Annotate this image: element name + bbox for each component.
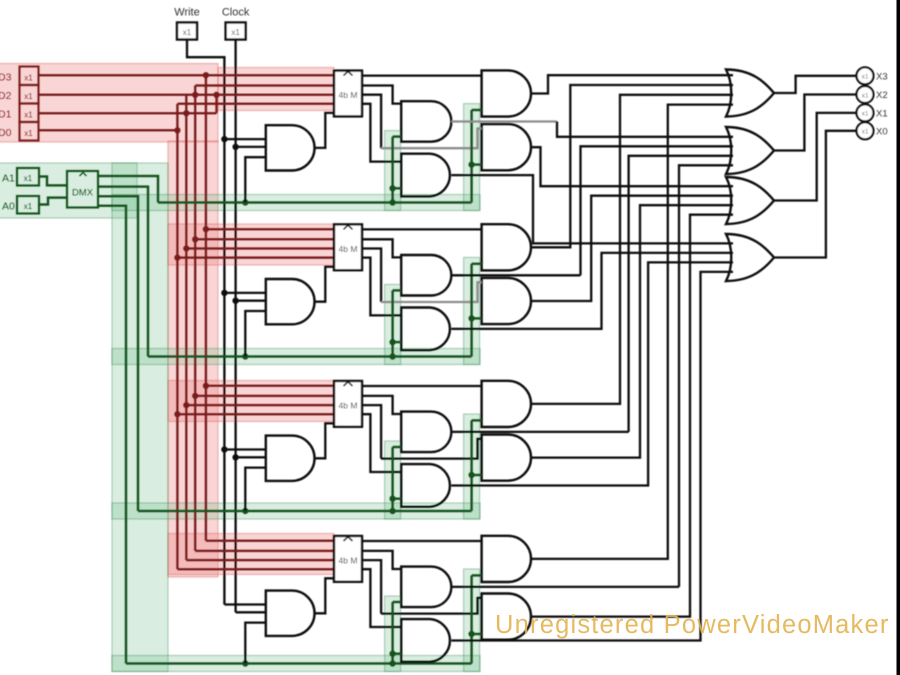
wire U2 output1 to R2a bbox=[362, 228, 482, 230]
wire U2 output4 to M2b bbox=[362, 258, 401, 316]
or-gate OR4 bit0 bbox=[726, 234, 774, 281]
node Write junction row1 bbox=[221, 136, 227, 142]
node D0 junction row3 bbox=[174, 411, 180, 417]
wire D3 horizontal to register row1 bbox=[39, 74, 335, 77]
highlight green band row3 select line bbox=[112, 503, 480, 519]
wire A1 to DMX bbox=[39, 177, 67, 186]
highlight green band row4 select riser x392 bbox=[385, 596, 401, 672]
wire R4b output to OR3 input4 bbox=[531, 215, 733, 617]
node D3 junction row3 bbox=[203, 383, 209, 389]
output pin X3 circle bbox=[857, 67, 874, 84]
input pin Clock x1 box bbox=[226, 23, 246, 40]
highlight green band row4 select riser x472 bbox=[464, 569, 480, 672]
wire row3 stub to M3b input2 bbox=[393, 497, 402, 500]
wire M1a output to OR2 input1 bbox=[451, 120, 557, 122]
node row2 riser x472 stub junction bbox=[468, 315, 474, 321]
and-gate R2a read bit3 bbox=[482, 224, 531, 270]
highlight green band row3 select riser x392 bbox=[385, 441, 401, 519]
highlight green band row1 select riser x472 bbox=[464, 104, 480, 211]
and-gate M2b read bit0 bbox=[401, 308, 450, 351]
wire row4 riser x472 top stub to R4a bbox=[472, 574, 482, 577]
wire Write branch row2 bbox=[224, 292, 265, 294]
wire R4a output to OR1 input4 bbox=[531, 105, 733, 559]
and-gate R4b read bit1 bbox=[482, 594, 531, 640]
node row3 select to write-AND stub bbox=[242, 508, 248, 514]
and-gate R3a read bit3 bbox=[482, 381, 531, 427]
and-gate M3b read bit0 bbox=[401, 464, 450, 507]
register U2 4-bit box bbox=[334, 224, 362, 270]
node D1 junction row3 bbox=[183, 402, 189, 408]
wire M2b output to OR4 input2 bbox=[451, 253, 733, 329]
or-gate OR3 bit1 bbox=[726, 177, 774, 224]
wire row1 stub to R1b input2 bbox=[472, 163, 482, 166]
svg-text:X2: X2 bbox=[876, 90, 888, 101]
wire row2 select line bbox=[148, 355, 472, 358]
wire U4 output3 to R4b bbox=[362, 560, 381, 614]
and-gate M4b read bit0 bbox=[401, 619, 450, 662]
highlight green band row1 select line bbox=[112, 195, 480, 211]
wire OR3 bit1 output to X1 bbox=[774, 113, 857, 201]
svg-text:x1: x1 bbox=[183, 28, 192, 37]
node Write junction row3 bbox=[221, 446, 227, 452]
node D2 branch junction bbox=[192, 92, 198, 98]
wire D0 branch row4 input4 bbox=[177, 568, 334, 571]
wire W4 output to register clock pin bbox=[315, 578, 334, 613]
wire R2a output to OR1 input2 bbox=[531, 85, 733, 247]
wire Write branch row3 bbox=[224, 448, 265, 450]
wire select stub to W1 input3 bbox=[245, 157, 265, 202]
wire U2 output3 to R2b bbox=[362, 249, 381, 303]
node row3 riser x472 stub junction bbox=[468, 472, 474, 478]
svg-text:x1: x1 bbox=[231, 28, 240, 37]
and-gate M4a read bit2 bbox=[401, 567, 451, 608]
input pin A1 x1 box bbox=[17, 168, 39, 186]
wire row1 riser x472 top stub to R1a bbox=[472, 109, 482, 112]
wire D1 horizontal bbox=[39, 112, 217, 115]
or-gate OR1 bit3 bbox=[726, 70, 774, 117]
wire Clock vertical bbox=[234, 40, 236, 613]
or-gate OR2 bit2 bbox=[726, 127, 774, 174]
highlight red band data-input block bbox=[0, 64, 218, 143]
wire Write pin to vertical bbox=[187, 40, 224, 605]
wire W1 output to register clock pin bbox=[315, 113, 334, 148]
svg-text:x1: x1 bbox=[24, 202, 33, 211]
svg-text:4b M: 4b M bbox=[339, 244, 358, 254]
node row2 select to write-AND stub bbox=[242, 353, 248, 359]
wire OR1 bit3 output to X3 bbox=[774, 76, 857, 93]
svg-text:4b M: 4b M bbox=[339, 556, 358, 566]
node Clock junction row2 bbox=[232, 298, 238, 304]
wire U4 output4 to M4b bbox=[362, 569, 401, 627]
wire row2 stub to R2b input2 bbox=[472, 317, 482, 320]
wire D0 vertical bus bbox=[176, 104, 179, 569]
node D0 corner junction bbox=[174, 127, 180, 133]
node row1 select to write-AND stub bbox=[242, 199, 248, 205]
wire D3 branch row4 input1 bbox=[206, 540, 334, 543]
wire row3 select riser x392 top stub to M3a bbox=[393, 446, 402, 449]
svg-text:4b M: 4b M bbox=[339, 90, 358, 100]
wire D2 branch row1 input2 bbox=[195, 84, 334, 87]
svg-text:x1: x1 bbox=[862, 74, 869, 81]
svg-text:Unregistered PowerVideoMaker: Unregistered PowerVideoMaker bbox=[495, 611, 890, 639]
wire row1 stub to M1b input2 bbox=[393, 187, 402, 190]
svg-text:x1: x1 bbox=[24, 92, 33, 101]
and-gate W2 write enable bbox=[266, 279, 315, 324]
node row4 select to mid riser bbox=[389, 660, 395, 666]
wire D2 branch row3 input2 bbox=[195, 395, 334, 398]
svg-text:D2: D2 bbox=[0, 90, 12, 102]
wire M4b output to OR4 input4 bbox=[451, 272, 733, 641]
svg-text:4b M: 4b M bbox=[339, 401, 358, 411]
wire U1 output2 to M1a bbox=[362, 86, 401, 104]
svg-text:x1: x1 bbox=[862, 92, 869, 99]
highlight green band row2 select riser x392 bbox=[385, 284, 401, 364]
node row4 select to write-AND stub bbox=[242, 660, 248, 666]
node D1 riser junction bbox=[213, 92, 219, 98]
wire DMX output 1 to row2 select bbox=[98, 187, 148, 357]
and-gate R4a read bit3 bbox=[482, 536, 531, 582]
wire row2 stub to M2b input2 bbox=[393, 341, 402, 344]
wire D0 branch row2 input4 bbox=[177, 256, 334, 259]
node row2 riser x392 stub junction bbox=[389, 339, 395, 345]
wire select stub to W2 input3 bbox=[245, 311, 265, 357]
wire R1a output to OR1 input1 bbox=[531, 75, 733, 93]
wire DMX output 0 to row1 select bbox=[98, 176, 158, 203]
svg-text:x1: x1 bbox=[24, 111, 33, 120]
black bar right edge bbox=[897, 0, 900, 675]
highlight red band row4 register feed bbox=[168, 534, 334, 575]
and-gate W1 write enable bbox=[266, 125, 315, 170]
highlight red band vertical D-bus bundle bbox=[168, 141, 218, 577]
wire row3 select line bbox=[138, 510, 472, 513]
node D2 junction row3 bbox=[192, 393, 198, 399]
and-gate R1b read bit1 bbox=[482, 124, 531, 170]
wire D1 riser to row1 input3 bbox=[215, 95, 218, 113]
node Clock junction row1 bbox=[232, 144, 238, 150]
wire select stub to W3 input3 bbox=[245, 468, 265, 511]
svg-text:X1: X1 bbox=[876, 108, 888, 119]
svg-text:D3: D3 bbox=[0, 72, 12, 84]
wire M3b output to OR4 input3 bbox=[451, 262, 733, 485]
output pin X0 circle bbox=[857, 122, 874, 139]
node Clock junction row3 bbox=[232, 454, 238, 460]
wire D3 branch row2 input1 bbox=[206, 228, 334, 231]
wire row4 stub to R4b input2 bbox=[472, 633, 482, 636]
svg-text:A1: A1 bbox=[2, 173, 15, 185]
svg-text:X0: X0 bbox=[876, 126, 888, 137]
and-gate M1b read bit0 bbox=[401, 154, 450, 197]
and-gate M3a read bit2 bbox=[401, 412, 451, 453]
node D3 junction row2 bbox=[203, 226, 209, 232]
highlight green panel address inputs bbox=[0, 163, 137, 218]
and-gate M1a read bit2 bbox=[401, 101, 451, 142]
wire M3a output to OR2 input3 bbox=[451, 431, 628, 433]
highlight green band row4 select line bbox=[112, 656, 480, 672]
wire row2 select riser x392 bbox=[391, 290, 394, 356]
highlight green band row2 select line bbox=[112, 349, 480, 365]
wire D2 branch row2 input2 bbox=[195, 238, 334, 241]
wire D0 branch row1 input4 bbox=[177, 103, 334, 106]
wire U4 output2 to M4a bbox=[362, 551, 401, 569]
highlight red band row2 register feed bbox=[168, 224, 334, 265]
wire R2b output to OR3 input2 bbox=[531, 196, 733, 301]
svg-text:x1: x1 bbox=[24, 174, 33, 183]
wire A0 to DMX bbox=[39, 198, 67, 205]
svg-text:D0: D0 bbox=[0, 127, 12, 139]
node D2 junction row2 bbox=[192, 236, 198, 242]
wire OR4 bit0 output to X0 bbox=[774, 131, 857, 258]
input pin D3 x1 box bbox=[20, 67, 39, 86]
node row1 riser x472 stub junction bbox=[468, 161, 474, 167]
wire Write branch row4 bbox=[224, 603, 265, 605]
and-gate M2a read bit2 bbox=[401, 255, 451, 296]
highlight red band row1 register feed bbox=[218, 68, 334, 111]
svg-text:A0: A0 bbox=[2, 201, 15, 213]
input pin D1 x1 box bbox=[20, 104, 39, 123]
wire U1 output3 to R1b bbox=[362, 95, 381, 149]
wire M2a output to OR2 input2 bbox=[451, 274, 580, 276]
wire U3 output2 to M3a bbox=[362, 396, 401, 414]
wire D2 horizontal to register row1 bbox=[39, 94, 335, 97]
and-gate W3 write enable bbox=[266, 436, 315, 481]
output pin X2 circle bbox=[857, 86, 874, 103]
wire M1b output to OR4 input1 bbox=[451, 175, 733, 243]
wire DMX output 3 to row4 select bbox=[98, 206, 126, 664]
svg-text:Write: Write bbox=[174, 7, 199, 19]
wire row1 select riser x472 bbox=[470, 110, 473, 203]
wire Clock branch row3 bbox=[236, 456, 266, 458]
node D0 junction row2 bbox=[174, 254, 180, 260]
node row2 select to mid riser bbox=[389, 353, 395, 359]
svg-text:DMX: DMX bbox=[72, 188, 94, 199]
wire Write branch row1 bbox=[224, 138, 265, 140]
input pin A0 x1 box bbox=[17, 196, 39, 214]
wire row3 stub to R3b input2 bbox=[472, 474, 482, 477]
highlight green band row1 select riser x392 bbox=[385, 131, 401, 211]
wire row2 riser x472 top stub to R2a bbox=[472, 263, 482, 266]
node D1 branch junction bbox=[183, 110, 189, 116]
wire U1 output1 to R1a bbox=[362, 74, 482, 76]
wire D2 branch row4 input2 bbox=[195, 550, 334, 553]
node Write junction row2 bbox=[221, 290, 227, 296]
wire row4 select riser x392 bbox=[391, 602, 394, 664]
wire D1 vertical bus bbox=[185, 95, 188, 560]
wire D1 branch row3 input3 bbox=[186, 404, 334, 407]
wire D3 branch row3 input1 bbox=[206, 385, 334, 388]
svg-text:X3: X3 bbox=[876, 71, 888, 82]
wire W3 output to register clock pin bbox=[315, 423, 334, 458]
wire DMX output 2 to row3 select bbox=[98, 196, 138, 511]
node row3 riser x392 stub junction bbox=[389, 496, 395, 502]
wire row4 select line bbox=[126, 662, 472, 665]
wire U3 output3 to R3b bbox=[362, 405, 381, 459]
wire row1 select line bbox=[158, 201, 472, 204]
wire D2 vertical bus bbox=[194, 86, 197, 551]
highlight green band row3 select riser x472 bbox=[464, 414, 480, 519]
wire D1 branch row4 input3 bbox=[186, 559, 334, 562]
wire D0 branch row3 input4 bbox=[177, 413, 334, 416]
node D1 junction row2 bbox=[183, 245, 189, 251]
highlight red band row3 register feed bbox=[168, 381, 334, 422]
wire row4 select riser x472 bbox=[470, 575, 473, 663]
wire row3 riser x472 top stub to R3a bbox=[472, 419, 482, 422]
wire Clock branch row2 bbox=[236, 300, 266, 302]
svg-text:D1: D1 bbox=[0, 109, 12, 121]
svg-text:x1: x1 bbox=[862, 129, 869, 136]
node row1 riser x392 stub junction bbox=[389, 185, 395, 191]
svg-text:x1: x1 bbox=[24, 74, 33, 83]
wire OR2 bit2 output to X2 bbox=[774, 95, 857, 151]
output pin X1 circle bbox=[857, 104, 874, 121]
wire D3 vertical bus bbox=[205, 75, 208, 541]
wire row1 select riser x392 bbox=[391, 137, 394, 203]
and-gate R3b read bit1 bbox=[482, 435, 531, 481]
wire R3b output to OR3 input3 bbox=[531, 205, 733, 457]
node row3 select to mid riser bbox=[389, 508, 395, 514]
node row4 riser x392 stub junction bbox=[389, 651, 395, 657]
wire row3 select riser x392 bbox=[391, 447, 394, 511]
highlight green band vertical select bundle bbox=[112, 163, 168, 672]
wire U4 output1 to R4a bbox=[362, 540, 482, 542]
register U3 4-bit box bbox=[334, 381, 362, 427]
wire W2 output to register clock pin bbox=[315, 267, 334, 302]
wire M4a output to OR2 input4 bbox=[451, 586, 679, 588]
wire Clock branch row1 bbox=[236, 146, 266, 148]
wire row1 select riser x392 top stub to M1a bbox=[393, 135, 402, 138]
wire R1b output to OR3 input1 bbox=[531, 147, 733, 186]
register U4 4-bit box bbox=[334, 536, 362, 582]
wire D1 branch row2 input3 bbox=[186, 247, 334, 250]
svg-text:x1: x1 bbox=[24, 129, 33, 138]
svg-text:Clock: Clock bbox=[222, 7, 250, 19]
demultiplexer DMX box bbox=[67, 171, 98, 208]
register U1 4-bit box bbox=[334, 71, 362, 117]
svg-text:x1: x1 bbox=[862, 111, 869, 118]
wire U1 output4 to M1b bbox=[362, 104, 401, 162]
wire U2 output2 to M2a bbox=[362, 239, 401, 257]
node row4 riser x472 stub junction bbox=[468, 631, 474, 637]
wire Clock branch row4 bbox=[236, 611, 266, 613]
wire row3 select riser x472 bbox=[470, 420, 473, 511]
wire select stub to W4 input3 bbox=[245, 623, 265, 664]
and-gate R1a read bit3 bbox=[482, 70, 531, 116]
wire row2 select riser x472 bbox=[470, 264, 473, 357]
node row1 select to mid riser bbox=[389, 199, 395, 205]
highlight green band row2 select riser x472 bbox=[464, 257, 480, 364]
wire D0 horizontal bbox=[39, 129, 178, 132]
input pin D0 x1 box bbox=[20, 122, 39, 141]
wire row4 stub to M4b input2 bbox=[393, 652, 402, 655]
input pin D2 x1 box bbox=[20, 85, 39, 104]
wire row4 select riser x392 top stub to M4a bbox=[393, 601, 402, 604]
wire U3 output1 to R3a bbox=[362, 385, 482, 387]
node D3 branch junction bbox=[203, 72, 209, 78]
wire row2 select riser x392 top stub to M2a bbox=[393, 289, 402, 292]
wire R3a output to OR1 input3 bbox=[531, 95, 733, 404]
input pin Write x1 box bbox=[177, 23, 197, 40]
wire U3 output4 to M3b bbox=[362, 414, 401, 472]
and-gate W4 write enable bbox=[266, 591, 315, 636]
and-gate R2b read bit1 bbox=[482, 278, 531, 324]
